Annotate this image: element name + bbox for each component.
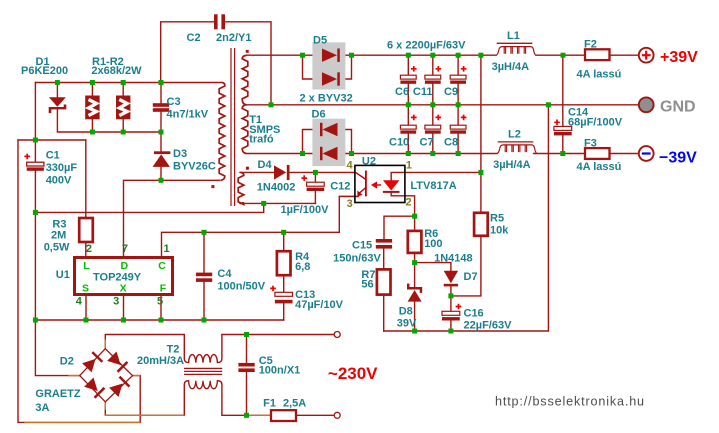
wire rail pinC-C4-R4-opto3 xyxy=(162,196,359,257)
svg-text:2: 2 xyxy=(406,196,412,208)
wire cap bank C6 xyxy=(407,55,409,105)
svg-text:F3: F3 xyxy=(584,137,597,149)
svg-text:C9: C9 xyxy=(444,86,458,98)
wire D8 leads xyxy=(414,263,416,331)
svg-text:3: 3 xyxy=(347,198,353,210)
T2 top winding xyxy=(184,335,222,363)
orange AC wire segments xyxy=(25,340,270,422)
svg-text:D3: D3 xyxy=(173,148,187,160)
diode D1 P6KE200 TVS xyxy=(49,97,67,113)
svg-text:4n7/1kV: 4n7/1kV xyxy=(167,109,209,121)
resistor R3 xyxy=(79,218,93,242)
zener D8 xyxy=(407,284,422,302)
bridge diode bottom-right xyxy=(109,376,130,397)
svg-text:C10: C10 xyxy=(389,136,409,148)
T1 polarity dot bias xyxy=(246,167,249,170)
svg-text:−39V: −39V xyxy=(659,150,697,167)
transformer T1 secondary winding lower xyxy=(242,105,248,154)
svg-text:U2: U2 xyxy=(362,156,376,168)
capacitor C13 electrolytic xyxy=(275,292,293,303)
transformer T1 bias winding xyxy=(238,172,244,204)
svg-text:U1: U1 xyxy=(56,269,70,281)
inductor L1 xyxy=(496,43,536,55)
capacitor C1 electrolytic xyxy=(27,162,44,171)
resistor R2 xyxy=(116,96,130,120)
capacitor C16 electrolytic xyxy=(442,311,460,320)
watermark xyxy=(495,395,645,409)
svg-text:2n2/Y1: 2n2/Y1 xyxy=(216,32,251,44)
fuse F3 xyxy=(585,148,610,159)
fuse F1 xyxy=(271,410,296,421)
bridge diode top-left xyxy=(82,351,103,372)
capacitor C6 xyxy=(400,75,416,84)
U2 phototransistor xyxy=(356,171,366,197)
C14 plus mark xyxy=(554,120,560,126)
svg-text:2: 2 xyxy=(86,243,92,255)
wire opto pin2 xyxy=(391,193,414,216)
wire R1 stubs xyxy=(91,83,93,133)
wire GND rail xyxy=(247,104,639,106)
T1 polarity dot primary xyxy=(211,185,214,188)
resistor R6 xyxy=(408,231,422,253)
U2 emitter arrowhead xyxy=(357,191,362,197)
bridge D2 diamond xyxy=(80,349,133,402)
fuse F2 xyxy=(585,49,610,60)
svg-text:68µF/100V: 68µF/100V xyxy=(568,117,623,129)
svg-text:L1: L1 xyxy=(507,30,520,42)
svg-text:3: 3 xyxy=(113,296,119,308)
D5 diode b xyxy=(322,72,340,85)
wire cap bank C9 xyxy=(457,55,459,105)
svg-text:7: 7 xyxy=(122,243,128,255)
bridge diode bottom-left xyxy=(84,377,105,398)
svg-text:X: X xyxy=(120,283,127,295)
diode D4 1N4002 xyxy=(274,165,290,180)
wire snubber top rail xyxy=(35,82,222,84)
wire D5 top diode leads xyxy=(303,54,352,56)
svg-text:4: 4 xyxy=(76,296,83,308)
svg-text:C6: C6 xyxy=(395,86,409,98)
svg-text:LTV817A: LTV817A xyxy=(410,180,456,192)
IC U1 TOP249Y box xyxy=(75,258,173,295)
wire source rail xyxy=(35,319,283,321)
D5 diode a xyxy=(322,49,340,62)
svg-text:TOP249Y: TOP249Y xyxy=(93,272,142,284)
svg-text:F2: F2 xyxy=(584,38,597,50)
svg-text:S: S xyxy=(82,283,89,295)
capacitor C15 xyxy=(376,239,392,249)
diode D7 xyxy=(444,271,458,287)
U2 LED bar xyxy=(383,191,400,193)
transformer T1 primary winding xyxy=(219,83,225,181)
wire feedback gnd return xyxy=(384,105,549,331)
resistor R1 xyxy=(85,96,99,120)
wire snubber bottom rail xyxy=(57,109,161,132)
wire -39 rail xyxy=(247,153,639,155)
svg-text:100n/50V: 100n/50V xyxy=(217,281,265,293)
bridge diode top-right xyxy=(107,351,128,372)
svg-text:1: 1 xyxy=(164,243,170,255)
resistor R7 xyxy=(377,269,391,294)
svg-text:P6KE200: P6KE200 xyxy=(21,65,68,77)
capacitor C7 xyxy=(425,125,441,134)
wire D3 stubs xyxy=(160,132,162,180)
svg-text:3A: 3A xyxy=(35,402,49,414)
capacitor C12 electrolytic xyxy=(307,182,325,191)
D6 diode b xyxy=(320,147,338,160)
svg-text:2x68k/2W: 2x68k/2W xyxy=(91,65,142,77)
svg-text:1N4148: 1N4148 xyxy=(434,253,473,265)
resistor R5 xyxy=(474,213,488,236)
wire opto pin3 xyxy=(339,195,358,197)
wire bridge top AC xyxy=(105,335,184,349)
wire IC bottom pins xyxy=(86,295,161,320)
svg-text:5: 5 xyxy=(157,296,163,308)
capacitor C8 xyxy=(450,125,466,134)
svg-text:D: D xyxy=(121,260,129,272)
svg-text:D6: D6 xyxy=(312,109,326,121)
svg-text:C16: C16 xyxy=(464,308,484,320)
svg-text:56: 56 xyxy=(361,279,373,291)
svg-text:47µF/10V: 47µF/10V xyxy=(295,299,344,311)
svg-text:1: 1 xyxy=(406,159,412,171)
svg-text:0,5W: 0,5W xyxy=(44,242,70,254)
capacitor C9 xyxy=(450,75,466,84)
optocoupler U2 box xyxy=(355,165,405,202)
wire D5 parallel loop xyxy=(303,55,352,79)
svg-text:C2: C2 xyxy=(187,32,201,44)
svg-text:2M: 2M xyxy=(51,230,66,242)
U2 LED xyxy=(383,180,399,190)
svg-text:D2: D2 xyxy=(60,356,74,368)
transformer T1 core xyxy=(231,48,235,206)
wire R6 leads xyxy=(414,216,416,262)
svg-text:330µF: 330µF xyxy=(46,162,78,174)
capacitor C4 xyxy=(196,273,212,282)
T2 core xyxy=(184,368,222,374)
wire R7 column xyxy=(384,216,415,331)
svg-text:C4: C4 xyxy=(217,268,232,280)
transformer T1 secondary winding upper xyxy=(242,55,248,104)
svg-text:D7: D7 xyxy=(464,271,478,283)
U2 light arrow xyxy=(372,183,381,188)
svg-text:400V: 400V xyxy=(46,175,72,187)
wire C5 stubs xyxy=(246,335,248,416)
inductor L2 xyxy=(497,142,537,154)
terminal +39V xyxy=(639,48,654,63)
svg-text:GRAETZ: GRAETZ xyxy=(35,388,81,400)
wire C14 column xyxy=(562,55,564,153)
svg-text:C12: C12 xyxy=(330,181,350,193)
svg-text:6 x 2200µF/63V: 6 x 2200µF/63V xyxy=(387,40,466,52)
wire primary bottom to pin7 xyxy=(124,180,220,257)
svg-text:100: 100 xyxy=(424,238,442,250)
svg-text:C7: C7 xyxy=(420,136,434,148)
wire D6 parallel loop xyxy=(303,130,352,154)
svg-text:BYV26C: BYV26C xyxy=(173,161,216,173)
wire C16 leads xyxy=(450,296,452,331)
wire D1 top stub xyxy=(56,83,58,98)
capacitor C3 xyxy=(153,103,169,112)
terminal circle mains top xyxy=(334,332,340,338)
wire C3 stubs xyxy=(160,83,162,133)
svg-text:20mH/3A: 20mH/3A xyxy=(137,355,184,367)
C13 plus mark xyxy=(270,286,276,292)
svg-text:2 x BYV32: 2 x BYV32 xyxy=(300,93,353,105)
C16 plus mark xyxy=(456,304,462,310)
wire left return loop xyxy=(18,140,140,422)
wire T2 right top to circle xyxy=(222,334,334,336)
svg-text:6,8: 6,8 xyxy=(295,261,310,273)
svg-text:C1: C1 xyxy=(46,150,60,162)
svg-text:C8: C8 xyxy=(444,136,458,148)
svg-text:trafó: trafó xyxy=(249,134,274,146)
D6 diode a xyxy=(320,123,338,136)
svg-text:C3: C3 xyxy=(167,96,181,108)
svg-text:3µH/4A: 3µH/4A xyxy=(492,61,530,73)
wire R5 column xyxy=(451,55,481,296)
terminal circle mains bottom xyxy=(334,412,340,418)
wire C12 stubs xyxy=(314,172,316,203)
wire bridge left feed xyxy=(35,320,79,376)
svg-text:GND: GND xyxy=(660,99,696,116)
wire bias return xyxy=(35,203,263,212)
svg-text:D5: D5 xyxy=(313,35,327,47)
wire D6 bottom diode leads xyxy=(303,153,352,155)
svg-text:10k: 10k xyxy=(490,225,509,237)
svg-text:R5: R5 xyxy=(490,213,504,225)
wire T2 right bottom to F1 xyxy=(222,414,271,416)
wire bias bottom xyxy=(240,202,315,204)
plus marks cap bank xyxy=(411,66,466,120)
T1 polarity dot secondary xyxy=(246,50,249,53)
svg-text:22µF/63V: 22µF/63V xyxy=(464,320,513,332)
capacitor C14 electrolytic xyxy=(554,126,572,135)
diode D3 BYV26C xyxy=(153,151,171,167)
wire R4-C13 xyxy=(283,232,285,320)
svg-text:T2: T2 xyxy=(167,344,180,356)
svg-text:+39V: +39V xyxy=(660,49,698,66)
svg-text:3µH/4A: 3µH/4A xyxy=(493,159,531,171)
wire D7 leads xyxy=(415,263,451,296)
wire left drop to C1 xyxy=(34,83,36,141)
wire R2 stubs xyxy=(122,83,124,133)
wire C2 top loop xyxy=(161,22,214,83)
svg-text:F: F xyxy=(160,283,167,295)
wire cap bank C11 xyxy=(432,55,434,105)
capacitor C10 xyxy=(400,125,416,134)
svg-text:C11: C11 xyxy=(413,86,433,98)
svg-text:C: C xyxy=(158,260,166,272)
C1 plus mark xyxy=(24,154,30,160)
svg-text:4A lassú: 4A lassú xyxy=(577,69,622,81)
wire +39 rail xyxy=(247,54,639,56)
svg-text:L: L xyxy=(83,260,90,272)
svg-text:C15: C15 xyxy=(352,240,372,252)
wire cap bank C7 xyxy=(432,105,434,154)
D6 gray background xyxy=(312,119,345,166)
svg-text:http://bsselektronika.hu: http://bsselektronika.hu xyxy=(495,395,645,409)
svg-text:F1: F1 xyxy=(263,397,276,409)
wire bridge bottom AC xyxy=(105,402,184,416)
svg-text:39V: 39V xyxy=(397,318,417,330)
wire cap bank C8 xyxy=(457,105,459,154)
wire opto pin1 xyxy=(391,172,481,180)
wire C1 column xyxy=(18,140,86,320)
wire cap bank C10 xyxy=(407,105,409,154)
svg-text:2,5A: 2,5A xyxy=(283,397,306,409)
capacitor C2 xyxy=(214,14,225,29)
svg-text:1N4002: 1N4002 xyxy=(257,182,296,194)
svg-text:1µF/100V: 1µF/100V xyxy=(281,204,330,216)
svg-text:4A lassú: 4A lassú xyxy=(577,161,622,173)
svg-text:100n/X1: 100n/X1 xyxy=(259,365,301,377)
terminal -39V xyxy=(639,146,654,161)
terminal GND xyxy=(639,97,654,112)
svg-text:4: 4 xyxy=(347,159,354,171)
wire C4 stubs xyxy=(203,232,205,320)
C12 plus mark xyxy=(301,175,307,181)
svg-text:L2: L2 xyxy=(508,129,521,141)
svg-text:D8: D8 xyxy=(399,306,413,318)
svg-text:~230V: ~230V xyxy=(328,364,378,383)
svg-text:150n/63V: 150n/63V xyxy=(333,253,381,265)
capacitor C5 xyxy=(238,363,254,372)
resistor R4 xyxy=(277,251,291,275)
wire F1 right xyxy=(296,414,334,416)
capacitor C11 xyxy=(425,75,441,84)
D5 gray background xyxy=(312,42,345,89)
wire R3 stubs xyxy=(85,140,87,257)
T2 bottom winding xyxy=(184,381,222,416)
wire D4 row xyxy=(240,171,355,173)
svg-text:D4: D4 xyxy=(258,159,273,171)
